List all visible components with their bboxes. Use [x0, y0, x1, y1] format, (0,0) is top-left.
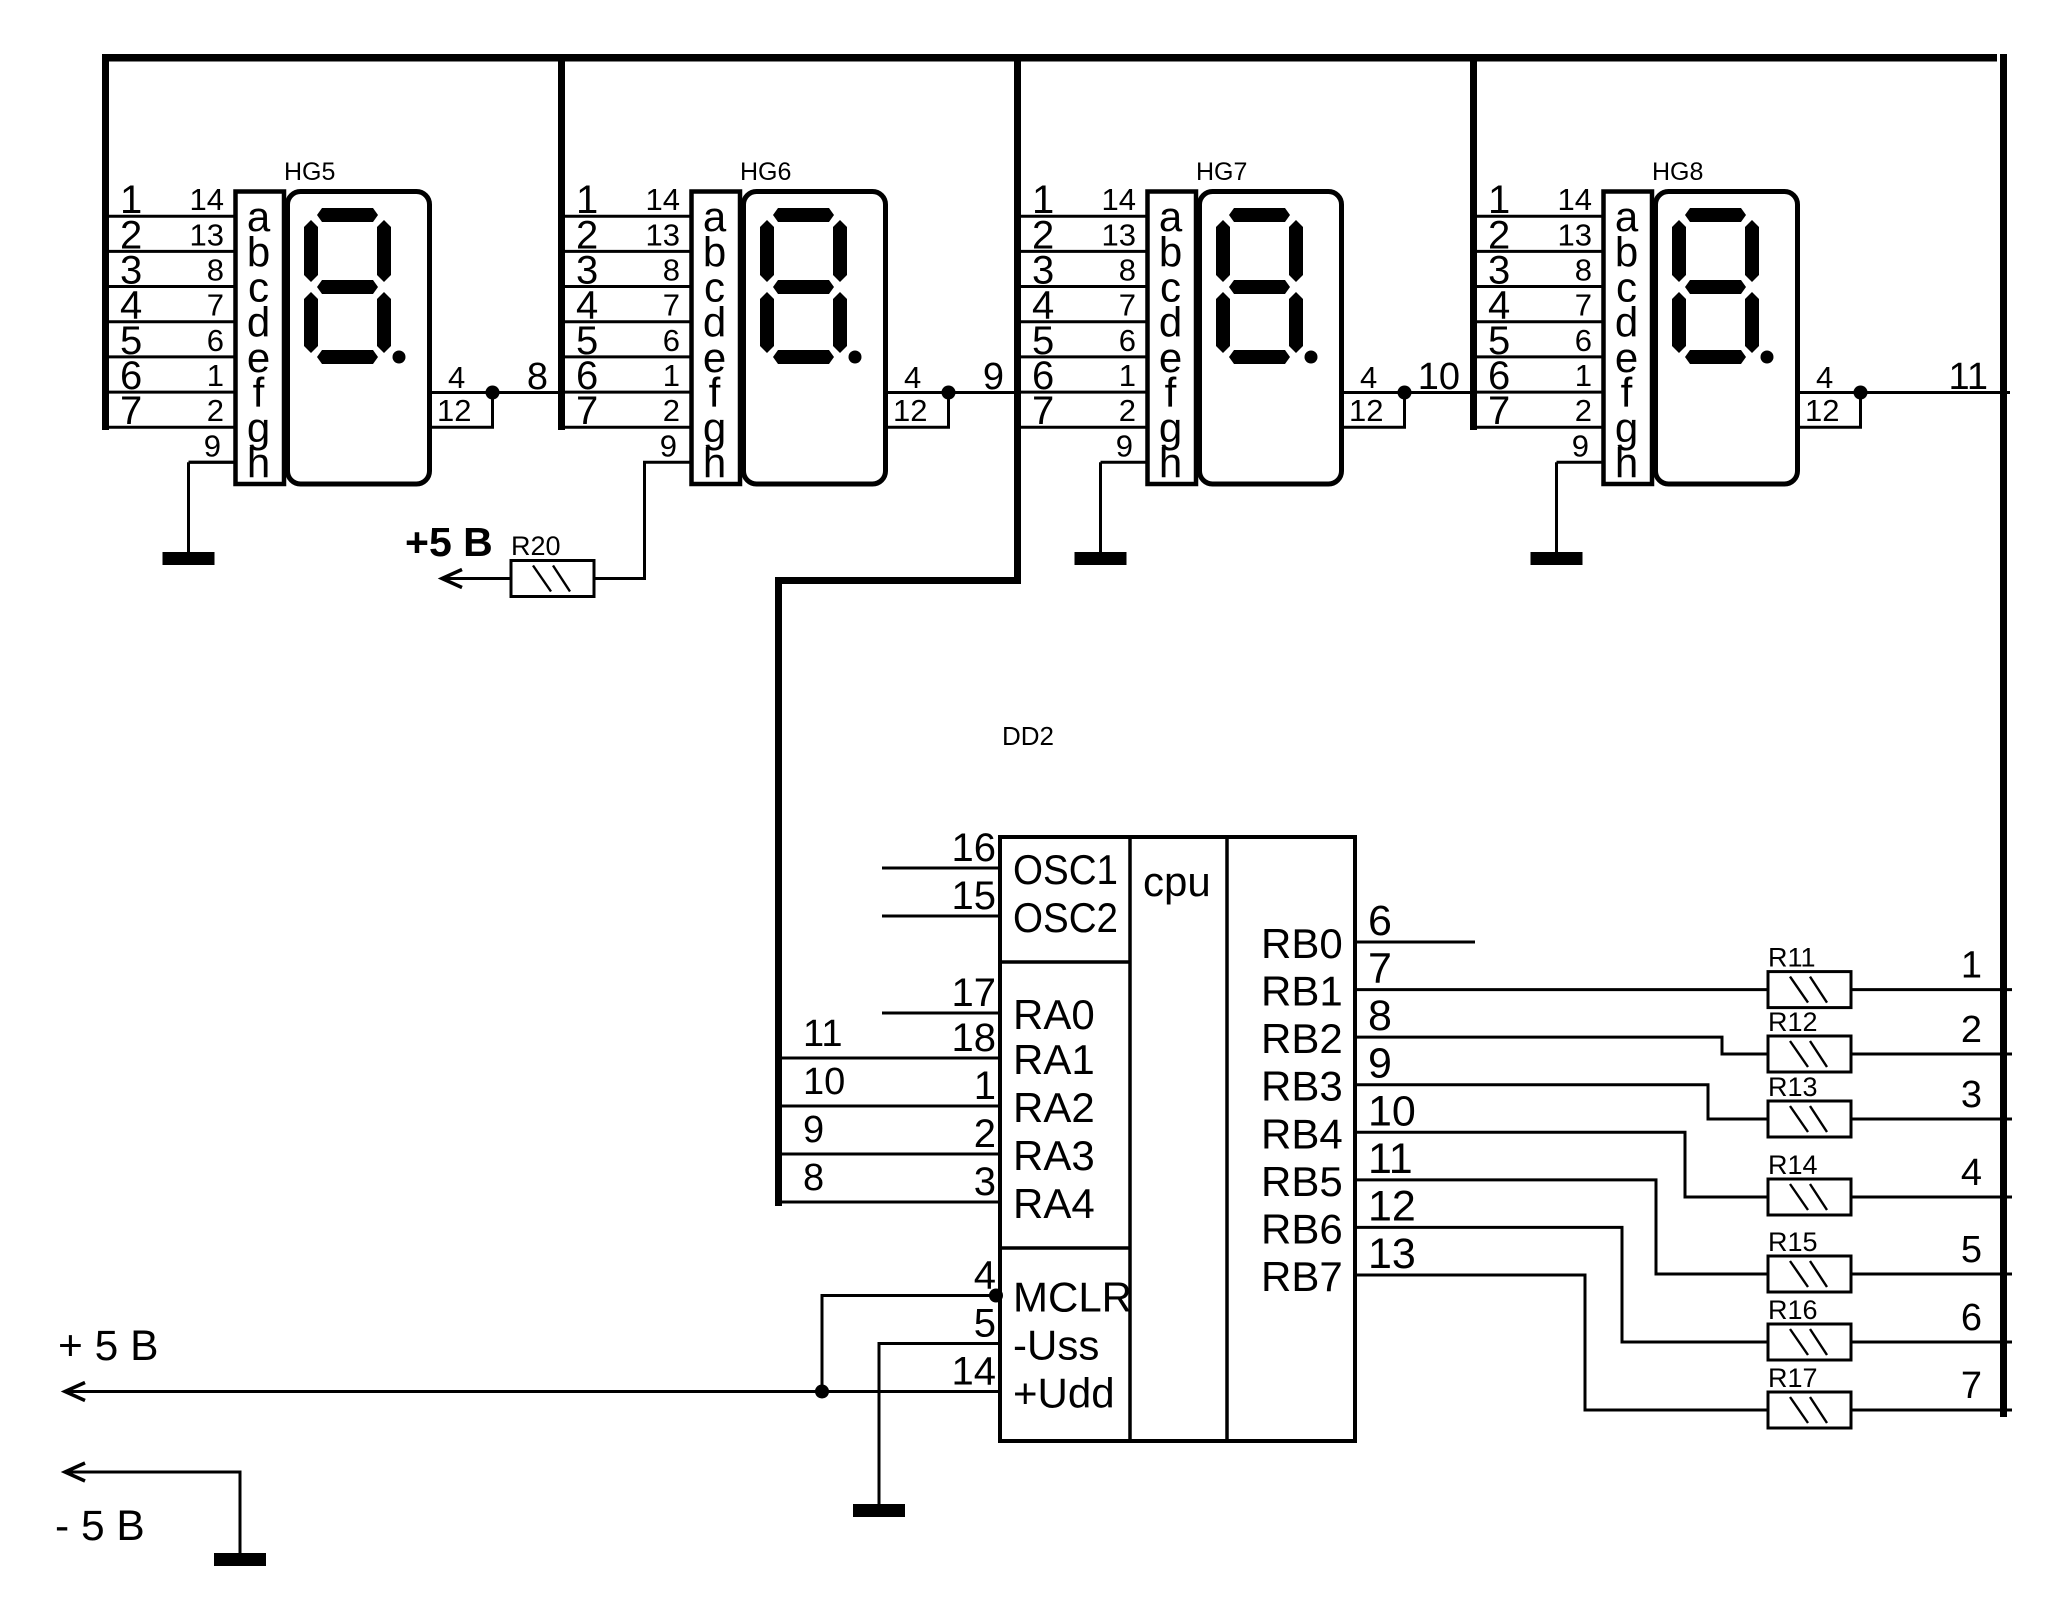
- resistor R13: [1768, 1072, 1851, 1137]
- wire pin 5 row: [559, 355, 692, 358]
- svg-text:RA2: RA2: [1013, 1084, 1095, 1131]
- wire R20 to +5V arrow: [442, 577, 511, 580]
- wire pin 3 row: [1015, 285, 1148, 288]
- svg-text:1: 1: [1961, 945, 1982, 987]
- wire +5V rail to +Udd: [65, 1390, 1000, 1393]
- seven-segment digit 8: [760, 208, 862, 364]
- svg-text:RB2: RB2: [1261, 1015, 1343, 1062]
- wire net 8: [493, 391, 563, 394]
- wire pin 9 HG8: [1557, 461, 1604, 464]
- svg-text:6: 6: [1575, 323, 1592, 358]
- wire R14 to right bus (net 4): [1851, 1196, 2012, 1199]
- svg-text:10: 10: [1418, 356, 1460, 398]
- junction node 8: [486, 386, 500, 400]
- IC DD2 body: [1000, 837, 1355, 1441]
- wire pin 4: [1799, 391, 1861, 394]
- svg-text:1: 1: [663, 358, 680, 393]
- node MCLR pin dot: [989, 1289, 1003, 1303]
- wire pin 3 row: [559, 285, 692, 288]
- wire pin 6 row: [103, 391, 236, 394]
- wire R17 to right bus (net 7): [1851, 1409, 2012, 1412]
- svg-text:11: 11: [1368, 1135, 1413, 1183]
- resistor R15: [1768, 1227, 1851, 1292]
- svg-text:h: h: [703, 439, 726, 486]
- junction node 9: [942, 386, 956, 400]
- wire pin 17 (RA0): [882, 1012, 1000, 1015]
- wire pin 3 row: [103, 285, 236, 288]
- svg-text:9: 9: [204, 428, 221, 463]
- wire pin 9 HG5: [189, 461, 236, 464]
- junction node 11: [1854, 386, 1868, 400]
- resistor R20: [511, 531, 594, 597]
- wire pin 1 row: [1471, 215, 1604, 218]
- wire pin 7 (RB1) to R11: [1355, 988, 1768, 991]
- svg-text:RB3: RB3: [1261, 1063, 1343, 1110]
- IC DD2 inner divider left: [1128, 837, 1132, 1441]
- svg-text:h: h: [1159, 439, 1182, 486]
- display pin-name strip: [1604, 192, 1653, 485]
- svg-text:6: 6: [207, 323, 224, 358]
- svg-text:R17: R17: [1768, 1363, 1818, 1393]
- IC DD2 inner divider right: [1225, 837, 1229, 1441]
- svg-text:12: 12: [1368, 1182, 1416, 1230]
- svg-text:1: 1: [207, 358, 224, 393]
- svg-text:14: 14: [646, 182, 680, 217]
- node junction on +5V line: [815, 1385, 829, 1399]
- svg-text:4: 4: [1816, 360, 1833, 395]
- svg-text:R15: R15: [1768, 1227, 1818, 1257]
- svg-text:RB1: RB1: [1261, 968, 1343, 1015]
- wire pin 18 (RA1): [779, 1057, 1001, 1060]
- wire pin 12: [887, 393, 949, 428]
- svg-text:R11: R11: [1768, 943, 1816, 973]
- resistor R14: [1768, 1150, 1851, 1215]
- svg-text:13: 13: [190, 217, 224, 252]
- svg-text:12: 12: [1805, 393, 1839, 428]
- svg-text:4: 4: [448, 360, 465, 395]
- 7-segment display HG8: [1471, 158, 2010, 486]
- svg-text:13: 13: [646, 217, 680, 252]
- wire R16 to right bus (net 6): [1851, 1341, 2012, 1344]
- wire pin 6 (RB0) stub: [1355, 941, 1475, 944]
- wire net 10: [1405, 391, 1475, 394]
- seven-segment digit 8: [304, 208, 406, 364]
- svg-text:9: 9: [660, 428, 677, 463]
- ground: [1531, 462, 1583, 565]
- svg-text:2: 2: [207, 393, 224, 428]
- wire right bus: [2000, 54, 2007, 1417]
- wire R15 to right bus (net 5): [1851, 1273, 2012, 1276]
- svg-text:9: 9: [983, 356, 1004, 398]
- wire pin 11 (RB5) to R15: [1355, 1180, 1768, 1274]
- wire -Uss to ground: [879, 1344, 1000, 1505]
- 7-segment display HG7: [1015, 158, 1474, 486]
- svg-text:7: 7: [576, 389, 598, 433]
- svg-text:RB6: RB6: [1261, 1205, 1343, 1252]
- svg-text:R12: R12: [1768, 1007, 1818, 1037]
- svg-text:HG8: HG8: [1652, 158, 1703, 186]
- wire top bus: [102, 54, 1997, 62]
- IC DD2 section divider OSC: [1000, 960, 1130, 964]
- op-amp: none; cpu IC box U=DD2: [1000, 837, 1355, 1441]
- svg-text:+5 В: +5 В: [405, 519, 493, 565]
- svg-text:15: 15: [952, 874, 997, 918]
- wire pin 3 row: [1471, 285, 1604, 288]
- svg-text:RA0: RA0: [1013, 991, 1095, 1038]
- svg-text:10: 10: [1368, 1087, 1416, 1135]
- svg-text:HG7: HG7: [1196, 158, 1247, 186]
- svg-text:7: 7: [1575, 288, 1592, 323]
- svg-text:18: 18: [952, 1016, 997, 1060]
- wire pin 1 row: [103, 215, 236, 218]
- wire pin 2 row: [1471, 250, 1604, 253]
- svg-text:+Udd: +Udd: [1013, 1370, 1115, 1417]
- svg-text:2: 2: [1961, 1009, 1982, 1051]
- svg-text:7: 7: [1368, 945, 1392, 993]
- svg-text:4: 4: [1961, 1152, 1982, 1194]
- wire pin 13 (RB7) to R17: [1355, 1275, 1768, 1410]
- svg-text:13: 13: [1368, 1230, 1416, 1278]
- svg-text:13: 13: [1102, 217, 1136, 252]
- svg-text:6: 6: [1368, 897, 1392, 945]
- svg-text:DD2: DD2: [1002, 721, 1054, 751]
- display pin-name strip: [1148, 192, 1197, 485]
- svg-text:7: 7: [1488, 389, 1510, 433]
- display digit box: [1200, 192, 1342, 485]
- svg-text:h: h: [247, 439, 270, 486]
- svg-text:8: 8: [1368, 992, 1392, 1040]
- svg-text:HG5: HG5: [284, 158, 335, 186]
- svg-text:8: 8: [1575, 253, 1592, 288]
- wire pin 10 (RB4) to R14: [1355, 1132, 1768, 1197]
- svg-text:RA1: RA1: [1013, 1036, 1095, 1083]
- IC DD2 section divider RA/MCLR: [1000, 1246, 1130, 1250]
- wire R11 to right bus (net 1): [1851, 988, 2012, 991]
- wire pin 12: [1343, 393, 1405, 428]
- svg-text:6: 6: [1119, 323, 1136, 358]
- svg-text:10: 10: [803, 1061, 845, 1103]
- resistor R17: [1768, 1363, 1851, 1428]
- resistor R11: [1768, 943, 1851, 1008]
- svg-text:RB4: RB4: [1261, 1110, 1343, 1157]
- wire pin 15 (OSC2): [882, 915, 1000, 918]
- wire MCLR to +Udd junction: [822, 1296, 1000, 1392]
- svg-text:9: 9: [1116, 428, 1133, 463]
- seven-segment digit 8: [1216, 208, 1318, 364]
- resistor R16: [1768, 1295, 1851, 1360]
- wire R12 to right bus (net 2): [1851, 1053, 2012, 1056]
- wire pin 12: [1799, 393, 1861, 428]
- svg-text:5: 5: [974, 1302, 996, 1346]
- wire pin 4 row: [103, 320, 236, 323]
- display digit box: [288, 192, 430, 485]
- wire pin 7 row: [1015, 426, 1148, 429]
- wire pin 5 row: [1015, 355, 1148, 358]
- resistor R12: [1768, 1007, 1851, 1072]
- wire pin 6 row: [1015, 391, 1148, 394]
- arrow +5V rail: [65, 1383, 85, 1401]
- svg-text:9: 9: [1368, 1040, 1392, 1088]
- wire pin 9 HG7: [1101, 461, 1148, 464]
- svg-text:HG6: HG6: [740, 158, 791, 186]
- svg-text:R13: R13: [1768, 1072, 1818, 1102]
- wire pin 6 row: [559, 391, 692, 394]
- svg-text:8: 8: [527, 356, 548, 398]
- svg-text:RA3: RA3: [1013, 1132, 1095, 1179]
- wire pin 7 row: [559, 426, 692, 429]
- svg-text:7: 7: [120, 389, 142, 433]
- svg-text:2: 2: [974, 1112, 996, 1156]
- svg-text:R20: R20: [511, 531, 561, 561]
- wire pin 4: [1343, 391, 1405, 394]
- svg-text:9: 9: [803, 1109, 824, 1151]
- svg-text:8: 8: [663, 253, 680, 288]
- wire pin 6 row: [1471, 391, 1604, 394]
- wire bus HG8 column: [1470, 54, 1477, 430]
- svg-text:7: 7: [1119, 288, 1136, 323]
- wire pin 2 row: [1015, 250, 1148, 253]
- wire pin 7 row: [103, 426, 236, 429]
- wire net 11: [1861, 391, 2011, 394]
- svg-text:2: 2: [1575, 393, 1592, 428]
- wire pin 2 row: [103, 250, 236, 253]
- wire pin 5 row: [103, 355, 236, 358]
- display pin-name strip: [236, 192, 285, 485]
- wire pin 1 row: [559, 215, 692, 218]
- svg-text:13: 13: [1558, 217, 1592, 252]
- wire bus elbow horizontal: [775, 577, 1021, 584]
- svg-text:1: 1: [974, 1064, 996, 1108]
- svg-text:5: 5: [1961, 1229, 1982, 1271]
- svg-text:7: 7: [663, 288, 680, 323]
- junction node 10: [1398, 386, 1412, 400]
- svg-text:12: 12: [437, 393, 471, 428]
- svg-text:11: 11: [1949, 356, 1988, 398]
- svg-text:R16: R16: [1768, 1295, 1818, 1325]
- 7-segment display HG5: [103, 158, 562, 486]
- wire pin 12: [431, 393, 493, 428]
- svg-text:OSC2: OSC2: [1013, 894, 1118, 941]
- svg-text:12: 12: [1349, 393, 1383, 428]
- svg-text:cpu: cpu: [1143, 858, 1211, 905]
- wire pin 8 (RB2) to R12: [1355, 1037, 1768, 1054]
- wire pin 7 row: [1471, 426, 1604, 429]
- svg-text:3: 3: [1961, 1074, 1982, 1116]
- svg-text:- 5 В: - 5 В: [55, 1503, 145, 1550]
- wire pin 9 HG6 to R20: [594, 462, 692, 578]
- svg-text:RB5: RB5: [1261, 1158, 1343, 1205]
- wire pin 1 row: [1015, 215, 1148, 218]
- svg-text:6: 6: [663, 323, 680, 358]
- ground: [1075, 462, 1127, 565]
- svg-text:14: 14: [190, 182, 224, 217]
- svg-text:8: 8: [207, 253, 224, 288]
- wire pin 4: [887, 391, 949, 394]
- wire net 9: [949, 391, 1019, 394]
- seven-segment digit 8: [1672, 208, 1774, 364]
- svg-text:7: 7: [207, 288, 224, 323]
- svg-text:1: 1: [1575, 358, 1592, 393]
- wire -5V rail: [65, 1472, 240, 1553]
- ground: [163, 462, 215, 565]
- ground: [853, 1504, 905, 1517]
- svg-text:14: 14: [1102, 182, 1136, 217]
- svg-text:MCLR: MCLR: [1013, 1274, 1132, 1321]
- wire bus HG6 column: [558, 54, 565, 430]
- wire pin 4: [431, 391, 493, 394]
- wire bus elbow vertical: [775, 577, 782, 1206]
- svg-text:3: 3: [974, 1160, 996, 1204]
- svg-text:12: 12: [893, 393, 927, 428]
- svg-text:RB0: RB0: [1261, 920, 1343, 967]
- svg-text:16: 16: [952, 826, 997, 870]
- wire pin 3 (RA4): [779, 1201, 1001, 1204]
- svg-text:R14: R14: [1768, 1150, 1818, 1180]
- svg-text:RA4: RA4: [1013, 1180, 1095, 1227]
- svg-text:8: 8: [803, 1157, 824, 1199]
- svg-text:17: 17: [952, 971, 997, 1015]
- svg-text:6: 6: [1961, 1297, 1982, 1339]
- wire R13 to right bus (net 3): [1851, 1118, 2012, 1121]
- display digit box: [744, 192, 886, 485]
- ground: [214, 1553, 266, 1566]
- 7-segment display HG6: [559, 158, 1018, 486]
- wire pin 9 (RB3) to R13: [1355, 1085, 1768, 1119]
- wire pin 4 row: [1015, 320, 1148, 323]
- wire pin 4 row: [559, 320, 692, 323]
- wire pin 2 (RA3): [779, 1153, 1001, 1156]
- svg-text:h: h: [1615, 439, 1638, 486]
- svg-text:RB7: RB7: [1261, 1253, 1343, 1300]
- svg-text:OSC1: OSC1: [1013, 846, 1118, 893]
- svg-text:7: 7: [1032, 389, 1054, 433]
- arrow +5V (R20): [442, 570, 462, 588]
- svg-text:14: 14: [1558, 182, 1592, 217]
- wire pin 16 (OSC1): [882, 867, 1000, 870]
- svg-text:8: 8: [1119, 253, 1136, 288]
- svg-text:4: 4: [904, 360, 921, 395]
- svg-text:1: 1: [1119, 358, 1136, 393]
- svg-text:7: 7: [1961, 1365, 1982, 1407]
- svg-text:14: 14: [952, 1350, 997, 1394]
- svg-text:2: 2: [663, 393, 680, 428]
- display pin-name strip: [692, 192, 741, 485]
- wire pin 4 row: [1471, 320, 1604, 323]
- wire bus HG7 column: [1014, 54, 1021, 584]
- arrow -5V rail: [65, 1463, 85, 1481]
- svg-text:9: 9: [1572, 428, 1589, 463]
- svg-text:+ 5 В: + 5 В: [58, 1323, 158, 1370]
- wire pin 12 (RB6) to R16: [1355, 1227, 1768, 1342]
- wire bus HG5 column: [102, 54, 109, 430]
- svg-text:11: 11: [803, 1013, 842, 1055]
- wire pin 5 row: [1471, 355, 1604, 358]
- wire pin 1 (RA2): [779, 1105, 1001, 1108]
- svg-text:2: 2: [1119, 393, 1136, 428]
- svg-text:-Uss: -Uss: [1013, 1322, 1099, 1369]
- wire pin 2 row: [559, 250, 692, 253]
- display digit box: [1656, 192, 1798, 485]
- svg-text:4: 4: [1360, 360, 1377, 395]
